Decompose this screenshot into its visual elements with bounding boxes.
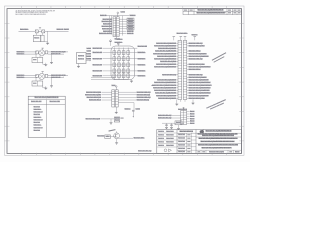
net labels FL3 right	[51, 74, 66, 79]
wires J3 bottom	[177, 100, 193, 104]
svg-text:RAS0/CAS1-WE2+DQ3MA4RD5: RAS0/CAS1-WE2+DQ3MA4RD5	[158, 47, 176, 50]
ground FL3 a	[44, 88, 47, 89]
svg-text:RAS0/CAS1-WE2+DQ: RAS0/CAS1-WE2+DQ	[137, 99, 150, 102]
capacitor C10	[125, 108, 141, 117]
power VCC J2	[112, 84, 118, 90]
filter network FL3	[36, 73, 48, 79]
svg-text:RAS0/CAS1-WE2+DQ3MA4RD5WR6A7B: RAS0/CAS1-WE2+DQ3MA4RD5WR6A7B	[153, 86, 176, 89]
connector J2 body	[112, 90, 118, 107]
svg-text:RAS0/CAS1-WE2+DQ3MA4RD5: RAS0/CAS1-WE2+DQ3MA4RD5	[189, 52, 207, 55]
ground J2	[115, 112, 118, 113]
svg-text:RAS0/CAS1-WE: RAS0/CAS1-WE	[93, 63, 103, 66]
net label U1 top-right	[130, 14, 137, 17]
svg-text:RAS0/CAS1-WE2+DQ3MA4RD5WR6A7B8: RAS0/CAS1-WE2+DQ3MA4RD5WR6A7B8C9D	[206, 130, 232, 133]
connector J3 body	[178, 41, 187, 100]
svg-text:RAS0/CAS1-WE: RAS0/CAS1-WE	[93, 57, 103, 60]
wire U1 bottom stub	[115, 36, 121, 40]
connector J4 body	[181, 111, 187, 125]
power VCC symbol U1	[117, 11, 126, 17]
net labels RP1 left	[93, 47, 103, 78]
ferrite bead L1	[35, 30, 38, 33]
svg-text:RAS0/CAS1-WE2+DQ3MA4RD5WR6: RAS0/CAS1-WE2+DQ3MA4RD5WR6	[189, 89, 210, 92]
ground FL1	[46, 43, 49, 44]
svg-text:RAS0/CA: RAS0/CA	[130, 14, 137, 17]
wire C10 offpage arrow	[133, 116, 134, 118]
svg-text:RAS0/CAS1-WE2+DQ3MA4RD5WR6A7: RAS0/CAS1-WE2+DQ3MA4RD5WR6A7	[189, 65, 211, 68]
svg-text:RAS0/CAS1-: RAS0/CAS1-	[138, 51, 146, 54]
wire J2 bottom	[115, 107, 117, 112]
wire FL3 ground	[36, 78, 52, 88]
wire J2B	[100, 119, 114, 123]
title block	[157, 130, 242, 154]
net labels RP1 right	[138, 45, 148, 77]
net label J2B	[86, 117, 101, 120]
svg-text:RAS0/CAS1-WE2+DQ3MA4RD5WR6A7B8: RAS0/CAS1-WE2+DQ3MA4RD5WR6A7B8	[152, 84, 176, 87]
pin stubs J1 to RP1	[87, 47, 92, 60]
power VCC J4	[183, 107, 184, 110]
ground J1	[77, 66, 80, 67]
net labels J3 right	[189, 42, 212, 100]
resistor columns RP1	[113, 48, 130, 80]
svg-text:RAS0/CAS1-WE2+DQ3MA4RD5WR: RAS0/CAS1-WE2+DQ3MA4RD5WR	[189, 79, 209, 82]
svg-text:RAS0/CAS1-WE2+DQ3MA4RD5WR6A7B8: RAS0/CAS1-WE2+DQ3MA4RD5WR6A7B8C9D0E1F2G3…	[198, 143, 239, 146]
wires U1 left pins	[112, 19, 114, 33]
net labels J4 left	[158, 114, 172, 120]
wires FL3 left	[25, 75, 38, 77]
title block title lines	[196, 137, 242, 149]
net labels FL3 left	[17, 74, 25, 79]
net labels FL1 right	[57, 28, 70, 31]
svg-text:RAS0/CAS1-WE2+DQ3MA4: RAS0/CAS1-WE2+DQ3MA4	[189, 63, 205, 66]
svg-text:RAS0/CAS1-WE: RAS0/CAS1-WE	[93, 74, 103, 77]
title block size/number/rev row	[196, 150, 242, 153]
revision block	[183, 9, 242, 15]
note scribble J3	[206, 98, 227, 111]
svg-text:RAS0/CAS1-WE2+DQ3MA4RD5WR6: RAS0/CAS1-WE2+DQ3MA4RD5WR6	[155, 50, 176, 53]
apple logo and company name	[200, 130, 232, 134]
wire J1 ground	[78, 64, 80, 67]
power stub FL3	[42, 72, 44, 74]
resistor R1	[105, 135, 111, 139]
net label boxes U1 right	[119, 18, 134, 31]
label R below RP1	[152, 84, 155, 87]
svg-text:RAS0/CAS1-WE2+DQ3MA4RD5WR: RAS0/CAS1-WE2+DQ3MA4RD5WR	[156, 63, 176, 66]
svg-text:RAS0/CAS1-: RAS0/CAS1-	[138, 69, 146, 72]
wires J4 right	[187, 112, 190, 124]
wires J3 right	[187, 43, 189, 98]
part number text	[138, 149, 152, 152]
net labels U1 right lower	[119, 30, 134, 35]
svg-text:RAS0/: RAS0/	[190, 122, 195, 125]
wires J2 left	[102, 92, 112, 100]
svg-text:RAS0/CAS1-: RAS0/CAS1-	[138, 63, 146, 66]
svg-text:RAS0/CAS1-WE2+DQ3MA4RD5WR6A7B: RAS0/CAS1-WE2+DQ3MA4RD5WR6A7B	[189, 84, 212, 87]
svg-text:RAS0/CAS1-WE2+DQ3MA4RD5WR6A7: RAS0/CAS1-WE2+DQ3MA4RD5WR6A7	[154, 44, 176, 47]
resistor array RP1 outline	[111, 46, 135, 80]
svg-text:RAS0/CAS1-: RAS0/CAS1-	[20, 28, 29, 31]
label J3 bottom	[178, 108, 187, 111]
capacitor C20 group	[162, 123, 184, 127]
net labels FL2 right	[51, 50, 66, 55]
power stub FL1	[39, 28, 41, 30]
label J2B right	[120, 117, 123, 120]
svg-text:RAS0/CAS1-WE2+DQ3MA4: RAS0/CAS1-WE2+DQ3MA4	[189, 44, 205, 47]
resistor box R5	[175, 121, 182, 125]
svg-text:RAS0/CAS1-: RAS0/CAS1-	[138, 74, 146, 77]
power VCC RP1 a	[109, 40, 112, 46]
power VCC RP1 b	[117, 42, 120, 45]
capacitor pack FL2	[32, 58, 43, 63]
svg-text:RAS0/CAS1-WE2+DQ3MA4RD5WR: RAS0/CAS1-WE2+DQ3MA4RD5WR	[156, 42, 176, 45]
wires RP1 bottom bus	[91, 78, 132, 81]
net labels J3 left	[152, 42, 176, 100]
wire FL1	[19, 31, 69, 43]
svg-text:RAS0/CAS1-WE2+DQ3MA4RD5WR6A7B8: RAS0/CAS1-WE2+DQ3MA4RD5WR6A7B8C9D0E1F2G3…	[199, 137, 238, 140]
ground FL3 b	[50, 86, 53, 87]
svg-text:RAS0/CAS1-WE2+DQ3MA4RD5WR6: RAS0/CAS1-WE2+DQ3MA4RD5WR6	[155, 92, 176, 95]
wire FL2 ground	[36, 54, 52, 64]
notes text	[15, 9, 55, 16]
capacitor C1	[33, 35, 40, 42]
ground Q1	[115, 143, 118, 144]
svg-text:RAS0/CAS1-WE: RAS0/CAS1-WE	[51, 52, 61, 55]
svg-text:RAS0/CAS1-WE2+: RAS0/CAS1-WE2+	[134, 137, 145, 140]
wires RP1 rows	[103, 48, 138, 76]
bus wires U1 left	[109, 16, 111, 34]
net labels J4 right	[190, 110, 195, 125]
wires FL2 right	[48, 52, 68, 54]
svg-text:RAS0/CAS1-WE2+DQ3MA4RD5WR: RAS0/CAS1-WE2+DQ3MA4RD5WR	[156, 94, 176, 97]
svg-text:RAS0/CAS1-WE2+DQ3MA4RD5WR6A7: RAS0/CAS1-WE2+DQ3MA4RD5WR6A7	[154, 89, 176, 92]
label Q1	[108, 129, 115, 131]
svg-text:RAS0/CAS1-WE2+DQ3MA4: RAS0/CAS1-WE2+DQ3MA4	[85, 93, 101, 96]
connector J2B body	[114, 117, 119, 122]
net labels FL2 left	[17, 50, 25, 55]
wire U1 top row	[106, 15, 129, 17]
net label U1 top-left	[100, 14, 107, 17]
net labels J2 left	[85, 91, 101, 102]
capacitor pack FL3	[32, 81, 43, 86]
svg-text:RAS0/CAS1-WE2+DQ3MA4RD5WR6A7B: RAS0/CAS1-WE2+DQ3MA4RD5WR6A7B	[153, 52, 176, 55]
wires J4 left	[172, 116, 181, 119]
svg-text:RAS0/CAS: RAS0/CAS	[100, 14, 107, 17]
svg-text:RAS0/CAS1-WE2+DQ3MA4RD5WR: RAS0/CAS1-WE2+DQ3MA4RD5WR	[189, 55, 209, 58]
svg-text:RAS0/CAS1-WE2+DQ: RAS0/CAS1-WE2+DQ	[99, 32, 112, 35]
wires FL3 right	[48, 75, 68, 77]
svg-text:RAS0/CAS1-WE2+DQ3MA4RD5WR6A7: RAS0/CAS1-WE2+DQ3MA4RD5WR6A7	[154, 81, 176, 84]
net label R1 left	[97, 135, 104, 138]
svg-text:RAS0/CAS1-WE2+DQ3MA4RD5WR6A7: RAS0/CAS1-WE2+DQ3MA4RD5WR6A7	[154, 65, 176, 68]
svg-text:RAS0/CAS1-: RAS0/CAS1-	[17, 53, 25, 56]
svg-text:RAS0/CAS1-WE2+DQ3MA4: RAS0/CAS1-WE2+DQ3MA4	[189, 97, 205, 100]
net labels J2 right	[137, 91, 151, 102]
svg-text:RAS0/CAS1-WE2+DQ3M: RAS0/CAS1-WE2+DQ3M	[87, 96, 102, 99]
ground R5	[177, 128, 180, 129]
IC U1 body	[113, 17, 119, 37]
svg-text:RAS0/CAS1-WE2+DQ3: RAS0/CAS1-WE2+DQ3	[189, 58, 203, 61]
net labels U1 left	[99, 18, 113, 35]
power VCC group J3	[173, 32, 198, 40]
ground J2B	[110, 123, 113, 124]
svg-text:RAS0/CAS1-WE2+DQ3: RAS0/CAS1-WE2+DQ3	[189, 42, 203, 45]
svg-text:RAS0/CAS1-WE2+DQ3MA: RAS0/CAS1-WE2+DQ3MA	[86, 91, 101, 94]
wires FL2 left	[25, 52, 38, 54]
svg-text:RAS0/CAS1-: RAS0/CAS1-	[138, 57, 146, 60]
label RP1	[115, 38, 123, 44]
svg-text:RAS0/CAS: RAS0/CAS	[127, 32, 134, 35]
svg-text:RAS0/CAS1-WE2+DQ3MA4RD5WR6A7: RAS0/CAS1-WE2+DQ3MA4RD5WR6A7	[189, 92, 211, 95]
filter network FL2	[36, 50, 48, 56]
wires J3 left	[176, 43, 178, 98]
svg-text:RAS0/CAS1-WE: RAS0/CAS1-WE	[93, 51, 103, 54]
svg-text:RAS0/CAS1-WE2+DQ3MA4RD5W: RAS0/CAS1-WE2+DQ3MA4RD5W	[157, 79, 176, 82]
ground FL2 a	[44, 65, 47, 66]
bus wire U1 right	[122, 16, 124, 36]
svg-text:RAS0/CAS1-WE2+DQ3M: RAS0/CAS1-WE2+DQ3M	[86, 117, 101, 120]
svg-text:RAS0/CAS1-: RAS0/CAS1-	[17, 76, 25, 79]
note diagonal J3	[212, 52, 227, 62]
connector J1 body	[77, 53, 87, 64]
svg-text:RAS0/CAS1-WE2+DQ3MA4RD5: RAS0/CAS1-WE2+DQ3MA4RD5	[158, 97, 176, 100]
svg-text:RAS0/CAS1-WE2+DQ3: RAS0/CAS1-WE2+DQ3	[162, 73, 176, 76]
svg-text:RAS0/CAS1-WE2+DQ3MA4RD5W: RAS0/CAS1-WE2+DQ3MA4RD5W	[157, 55, 176, 58]
signal description table	[28, 96, 65, 137]
svg-text:RAS0/CAS1-WE2+DQ3MA4: RAS0/CAS1-WE2+DQ3MA4	[160, 60, 176, 63]
svg-text:RAS0/CAS1-WE2+DQ3MA4RD5WR6A7: RAS0/CAS1-WE2+DQ3MA4RD5WR6A7	[154, 58, 176, 61]
ground C20 b	[170, 127, 173, 128]
svg-text:RAS0/C: RAS0/C	[64, 28, 70, 31]
wire R5 ground	[178, 125, 180, 128]
pins J1 right	[86, 53, 91, 61]
svg-text:RAS0/CAS1-WE2+D: RAS0/CAS1-WE2+D	[189, 68, 201, 71]
capacitor C2	[41, 35, 44, 42]
svg-text:RAS0/CAS1-WE2+DQ3: RAS0/CAS1-WE2+DQ3	[158, 117, 172, 120]
svg-text:RAS0/CAS1-WE: RAS0/CAS1-WE	[51, 76, 61, 79]
ground J3 b	[192, 103, 195, 104]
transistor Q1	[114, 133, 120, 139]
svg-text:RAS0/CAS1-WE2+DQ3MA4RD5WR6A7: RAS0/CAS1-WE2+DQ3MA4RD5WR6A7	[189, 81, 211, 84]
ground RP1	[130, 81, 133, 82]
svg-text:RAS0/CAS1-WE2+DQ3MA4RD5: RAS0/CAS1-WE2+DQ3MA4RD5	[189, 76, 207, 79]
ferrite bead L2	[42, 30, 45, 33]
ground FL2 b	[50, 62, 53, 63]
svg-text:RAS0/CAS1-WE: RAS0/CAS1-WE	[93, 47, 103, 50]
net label Q1 right	[134, 137, 145, 140]
svg-text:RAS0/CAS1-WE2+DQ3: RAS0/CAS1-WE2+DQ3	[137, 93, 151, 96]
svg-text:RAS0/CAS1-WE2+DQ3MA4RD5WR: RAS0/CAS1-WE2+DQ3MA4RD5WR	[189, 94, 209, 97]
svg-text:RAS0/CAS1-WE2+D: RAS0/CAS1-WE2+D	[89, 99, 101, 102]
ground C20 a	[165, 127, 168, 128]
svg-text:RAS0/CAS1-WE: RAS0/CAS1-WE	[93, 69, 103, 72]
power stub FL2	[42, 48, 44, 50]
svg-text:RAS0/CAS1-WE2+DQ3MA4RD5WR6A7B8: RAS0/CAS1-WE2+DQ3MA4RD5WR6A7B8C9D0E1F2G3…	[201, 140, 235, 143]
title block address	[196, 133, 242, 138]
wires Q1	[110, 131, 133, 142]
svg-text:RAS0/CAS1-WE2+DQ3: RAS0/CAS1-WE2+DQ3	[189, 73, 203, 76]
svg-text:RAS0/CAS: RAS0/CAS	[97, 135, 104, 138]
svg-text:RAS0/CAS1-WE: RAS0/CAS1-WE	[138, 45, 148, 48]
net label FL1 left	[20, 28, 29, 31]
wires J2 right	[118, 92, 136, 110]
svg-text:RAS0/CAS: RAS0/CAS	[57, 28, 65, 31]
svg-text:RAS0/CAS1-WE2+DQ3: RAS0/CAS1-WE2+DQ3	[137, 96, 151, 99]
ground J3 a	[175, 104, 178, 105]
svg-text:RAS0/CAS1-WE2+DQ3MA4RD5WR6A7: RAS0/CAS1-WE2+DQ3MA4RD5WR6A7	[189, 86, 211, 89]
svg-text:RAS0/CAS1-WE2+DQ3: RAS0/CAS1-WE2+DQ3	[137, 91, 151, 94]
svg-text:RAS0/CAS1-WE2+D: RAS0/CAS1-WE2+D	[189, 50, 201, 53]
